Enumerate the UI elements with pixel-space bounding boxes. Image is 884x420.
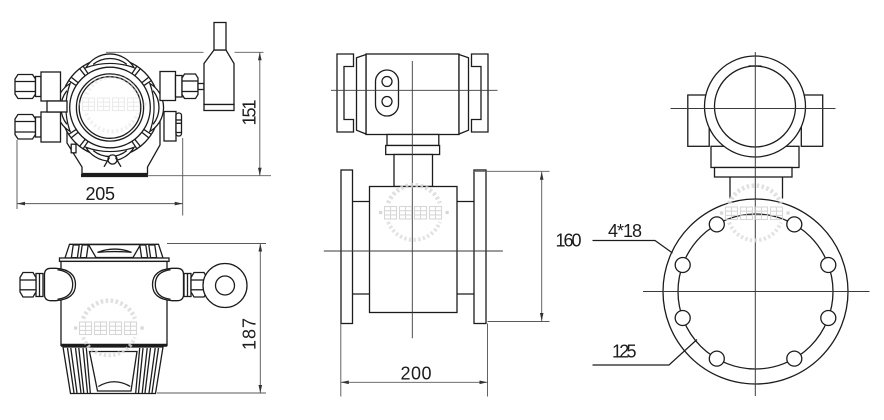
antenna body [204,50,234,105]
gland lower-right: cap [176,113,182,136]
antenna stem [214,23,226,51]
skirt ribs right [136,348,159,393]
arrow 151 bottom [258,168,262,176]
ext line left (205) [16,140,18,209]
gland right: washer [184,274,191,297]
body bottom thick edge [81,174,148,177]
centerline horizontal (converter) [331,89,498,91]
cover face inner circle [79,77,141,139]
ext line top (160) [475,170,550,172]
side lug right [801,95,822,146]
ext line right (200/160) [487,324,489,397]
cap tick right pair [140,245,157,258]
arrow 187 bottom [259,385,263,393]
cap brim [60,258,170,261]
ext line right (205) [182,138,184,216]
svg-text:205: 205 [86,184,116,204]
bolt hole 4 (160deg) [675,258,690,273]
centerline horizontal (housing) [671,108,836,110]
ext line top (151) [106,51,204,53]
ext line bottom (151) [148,175,272,177]
pipe stub lines left [353,202,370,295]
watermark seal view2 [74,301,144,356]
converter housing inner circle [715,66,796,147]
spacer between left glands [47,101,67,112]
ext line top (187) [167,243,266,245]
watermark seal view4 [720,186,790,241]
stadium hole bottom [382,97,392,107]
ext line bottom (160) [488,321,550,323]
bolt circle [678,214,833,369]
svg-text:160: 160 [556,231,582,251]
gland left: hex nut [20,273,36,298]
flange outer circle [663,199,848,384]
bolt hole 2 (60deg) [787,217,802,232]
gland lower-left: hex nut [15,115,36,140]
cover band radial lines [132,66,152,86]
flange right [474,170,486,324]
centerline horizontal (pipe axis) [324,250,503,252]
small clamp left bottom [71,144,76,153]
neck [730,177,783,199]
bolt hole 8 (340deg) [821,311,836,326]
gland upper-left: hex nut [15,75,36,99]
cover clamp screw bottom [104,155,121,167]
cover lobe E [150,84,164,132]
converter main body [61,261,167,345]
gland upper-right: block [160,72,176,101]
bolt hole 6 (240deg) [709,351,724,366]
dim line 151 [259,52,261,175]
cover lobe S [86,147,134,161]
dim line 200 [341,381,488,383]
end plate right [459,55,469,135]
arrow 160 top [540,172,544,180]
leader 4*18 [593,241,673,254]
boss right [153,268,184,300]
gland left: washer [36,274,43,297]
body bottom thick edge [61,344,167,347]
dim line 205 [17,203,183,205]
pipe stub lines right [457,202,474,295]
arrow 200 right [480,381,488,385]
end bracket right [472,54,489,132]
terminal stadium [376,70,399,116]
converter top cap [65,244,163,258]
cover lobe W [56,84,70,132]
cap dome detail [89,245,141,258]
centerline horizontal (flange) [643,291,870,293]
skirt window [90,352,138,392]
cover face outer circle [76,74,143,141]
cover ring inner circle [70,67,151,148]
arrow 205 left [17,202,25,206]
gland lower-left: washer [36,117,42,137]
bottom skirt [63,347,163,394]
leader 125 [593,340,698,366]
converter lower body [711,146,799,167]
neck collar 1 [387,135,439,146]
flange left [341,170,353,324]
dim line 160 [541,172,543,321]
transmitter body (octagonal, top view) [67,90,160,174]
gland upper-left: washer [36,77,42,97]
svg-text:125: 125 [612,342,637,362]
ext line left (200) [340,324,342,397]
cover lobe N [86,54,134,68]
dim line 187 [259,244,261,394]
arrow 205 right [175,202,183,206]
stub hex to antenna [198,84,204,90]
meter body [370,187,458,313]
arrow 160 bottom [540,313,544,321]
boss left [45,268,76,300]
antenna bottom cap [204,105,234,111]
cap dome lens [98,249,132,252]
gland upper-right: washer [176,76,183,98]
bolt hole 7 (300deg) [787,351,802,366]
gland upper-right: hex nut [182,74,198,99]
gland right: hex nut [191,273,207,298]
bolt hole 3 (120deg) [709,217,724,232]
arrow 187 top [259,244,263,252]
gland lower-right: block [164,112,176,142]
gland upper-left: block [41,72,61,101]
side lug left [688,95,709,146]
svg-text:187: 187 [240,318,260,350]
cap tick left pair [71,245,88,258]
centerline vertical [411,61,413,338]
skirt ribs left [68,348,91,393]
stadium hole top [382,77,392,87]
lifting ring outer [203,264,247,308]
arrow 200 left [341,381,349,385]
bolt hole 1 (20deg) [821,258,836,273]
watermark seal view3 [379,185,449,240]
end plate left [357,55,367,135]
svg-text:151: 151 [239,100,259,126]
neck collar 2 [386,146,440,155]
ext line bottom (187) [157,392,266,394]
lifting ring hole [216,276,235,295]
centerline vertical [754,52,756,396]
end bracket left [337,54,354,132]
watermark seal view1 [77,77,147,132]
neck column [394,155,433,187]
cover outer rim (scalloped) [61,58,160,157]
collar [715,168,793,178]
bolt hole 5 (200deg) [675,311,690,326]
converter housing outer circle [705,56,806,157]
converter box [366,54,459,135]
tick at inner circle top [749,65,762,67]
svg-text:4*18: 4*18 [608,221,642,241]
window arc [98,382,130,387]
svg-text:200: 200 [401,364,432,384]
arrow 151 top [258,52,262,60]
gland lower-left: block [41,112,61,142]
